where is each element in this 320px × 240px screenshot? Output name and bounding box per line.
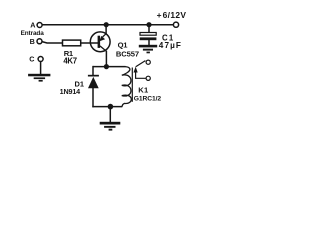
wire B to R1 (42, 42, 63, 43)
node: ground junction dot (108, 104, 114, 110)
svg-text:1N914: 1N914 (60, 87, 81, 96)
svg-text:4K7: 4K7 (63, 57, 76, 66)
relay contact blade (136, 61, 146, 67)
node: emitter junction dot (104, 22, 109, 27)
wire rail to C1 (148, 25, 150, 33)
ground (C1) (139, 45, 157, 54)
wire diode branch lower (92, 88, 94, 107)
relay contact arrow shaft (136, 72, 146, 78)
capacitor C1 top plate (140, 33, 156, 36)
wire R1 to base (81, 42, 98, 44)
svg-text:A: A (30, 21, 35, 30)
supply terminal circle (173, 22, 178, 27)
terminal A (37, 23, 42, 28)
terminal C (38, 57, 43, 62)
svg-text:C: C (29, 54, 34, 63)
svg-text:G1RC1/2: G1RC1/2 (134, 95, 162, 102)
ground (bottom) (100, 122, 121, 131)
svg-text:B: B (30, 37, 35, 46)
wire A to +V rail (42, 24, 173, 26)
Q1 base bar (98, 36, 101, 48)
wire C to ground (40, 62, 42, 74)
wire bottom of relay loop (92, 106, 122, 108)
relay contact arrow (134, 67, 138, 73)
svg-text:Entrada: Entrada (21, 30, 45, 37)
Q1 emitter segment (103, 34, 106, 37)
wire to bottom ground (109, 107, 111, 122)
svg-text:+6/12V: +6/12V (157, 10, 187, 20)
terminal B (37, 39, 42, 44)
wire C1 to ground (148, 40, 150, 45)
wire collector down (105, 51, 107, 67)
transistor Q1 circle (90, 32, 110, 52)
relay contact NO circle (146, 60, 150, 64)
diode D1 triangle (88, 77, 99, 88)
wire top of relay loop (93, 66, 126, 68)
Q1 emitter wire from rail (105, 25, 107, 34)
Q1 collector segment (100, 46, 107, 51)
relay coil K1 (122, 67, 132, 107)
ground (input C) (28, 74, 50, 82)
svg-text:BC557: BC557 (116, 50, 139, 59)
node: collector junction dot (104, 64, 109, 69)
svg-text:K1: K1 (138, 86, 149, 95)
capacitor C1 bottom plate (140, 37, 157, 40)
node: C1 junction dot (146, 22, 151, 27)
svg-text:47µF: 47µF (159, 41, 182, 50)
wire diode branch upper (92, 66, 94, 75)
relay core line (131, 68, 133, 102)
diode D1 cathode bar (88, 75, 99, 77)
Q1 emitter arrow (PNP) (99, 36, 105, 42)
relay contact common circle (146, 76, 150, 80)
svg-text:Q1: Q1 (118, 40, 129, 49)
resistor R1 (63, 40, 81, 46)
